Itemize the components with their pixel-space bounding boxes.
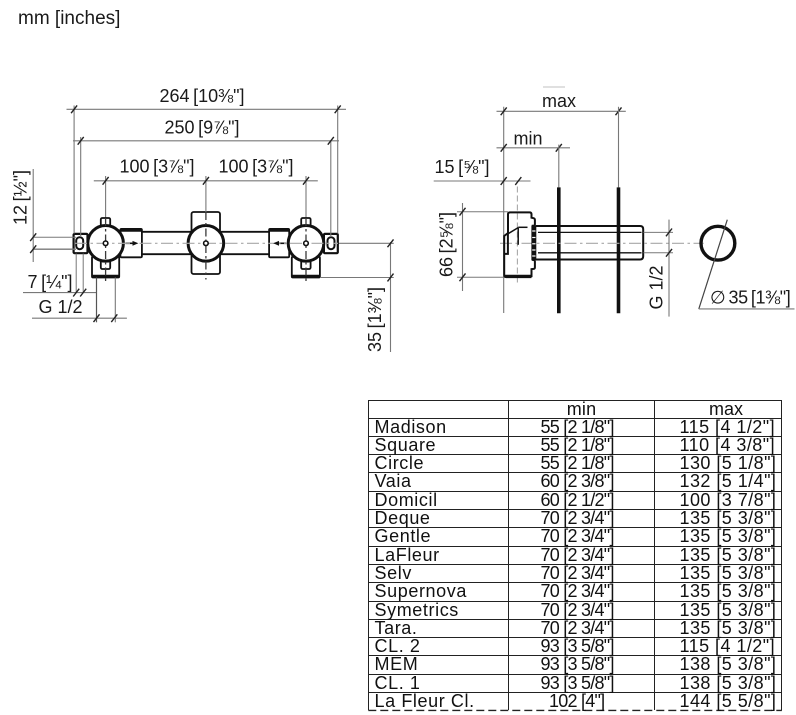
svg-text:66 [2⅝"]: 66 [2⅝"] (437, 212, 457, 277)
svg-text:100 [3⅞"]: 100 [3⅞"] (218, 157, 293, 177)
svg-text:15 [⅝"]: 15 [⅝"] (434, 157, 489, 177)
svg-text:250 [9⅞"]: 250 [9⅞"] (164, 117, 239, 137)
svg-text:264 [10⅜"]: 264 [10⅜"] (159, 86, 244, 106)
svg-text:35 [1⅜"]: 35 [1⅜"] (365, 287, 385, 352)
svg-text:100 [3⅞"]: 100 [3⅞"] (119, 157, 194, 177)
svg-text:G 1/2: G 1/2 (38, 297, 82, 317)
svg-text:G 1/2: G 1/2 (647, 265, 667, 309)
svg-text:12 [½"]: 12 [½"] (11, 170, 31, 225)
svg-text:min: min (513, 129, 542, 149)
svg-text:max: max (542, 91, 576, 111)
svg-text:∅ 35 [1⅜"]: ∅ 35 [1⅜"] (710, 287, 790, 307)
svg-text:7 [¼"]: 7 [¼"] (27, 272, 72, 292)
